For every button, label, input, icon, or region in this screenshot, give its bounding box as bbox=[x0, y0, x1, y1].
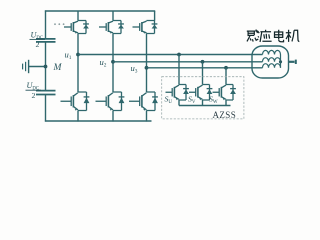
motor winding row 3 bbox=[263, 64, 281, 68]
wire top DC bus bbox=[45, 10, 155, 12]
svg-text:SW: SW bbox=[209, 94, 218, 105]
transistor Q6 (bottom leg C IGBT+diode) bbox=[129, 92, 158, 111]
wire leg C lower stub bbox=[146, 111, 148, 122]
wire phase leg B vertical bbox=[112, 34, 114, 93]
transistor Q5 (top leg C IGBT+diode) bbox=[133, 21, 158, 34]
svg-text:u2: u2 bbox=[100, 57, 107, 69]
label induction motor (Chinese) bbox=[247, 30, 259, 42]
capacitor C2 (lower DC-link) bbox=[36, 90, 56, 92]
capacitor C1 (upper DC-link) bbox=[36, 38, 56, 40]
svg-text:u1: u1 bbox=[65, 50, 72, 62]
wire phase leg A vertical bbox=[77, 34, 79, 93]
motor star point node bbox=[279, 60, 282, 63]
motor star point wire bbox=[280, 55, 282, 68]
ellipsis dots (top left) bbox=[54, 23, 56, 25]
node AZSS tap 2 bbox=[201, 60, 205, 64]
motor winding row 2 bbox=[263, 58, 281, 62]
wire bottom DC bus bbox=[45, 120, 152, 122]
AZSS dashed box bbox=[162, 77, 244, 119]
svg-text:2: 2 bbox=[32, 91, 36, 100]
wire SV bottom stub bbox=[202, 100, 204, 106]
wire top bus drop to Q1 bbox=[77, 11, 79, 21]
svg-text:SU: SU bbox=[165, 94, 173, 105]
wire phase line 2 bbox=[113, 61, 263, 63]
node u2 junction bbox=[111, 60, 115, 64]
motor outline bbox=[252, 46, 289, 78]
wire AZSS drop 3 bbox=[225, 68, 227, 85]
svg-text:SV: SV bbox=[188, 94, 196, 105]
svg-text:2: 2 bbox=[36, 40, 40, 49]
node u3 junction bbox=[145, 66, 149, 70]
wire phase line 1 bbox=[78, 54, 263, 56]
node AZSS tap 1 bbox=[177, 53, 181, 57]
transistor SW (AZSS switch W) bbox=[213, 85, 236, 101]
transistor Q2 (bottom leg A IGBT+diode) bbox=[61, 92, 90, 111]
svg-text:u3: u3 bbox=[131, 63, 138, 75]
transistor SU (AZSS switch U) bbox=[166, 85, 189, 101]
transistor Q4 (bottom leg B IGBT+diode) bbox=[96, 92, 125, 111]
wire top bus drop to Q3 bbox=[112, 11, 114, 21]
transistor Q3 (top leg B IGBT+diode) bbox=[99, 21, 124, 34]
node u1 junction bbox=[76, 53, 80, 57]
transistor Q1 (top leg A IGBT+diode) bbox=[64, 21, 89, 34]
wire leg A lower stub bbox=[77, 111, 79, 122]
motor shaft bbox=[289, 61, 295, 63]
transistor SV (AZSS switch V) bbox=[189, 85, 212, 101]
node AZSS tap 3 bbox=[224, 66, 228, 70]
svg-text:M: M bbox=[53, 63, 63, 73]
node M junction bbox=[44, 65, 48, 69]
wire left DC rail lower bbox=[45, 95, 47, 122]
battery (DC source) bbox=[22, 64, 24, 70]
wire AZSS common rail bbox=[179, 105, 231, 107]
wire left DC rail upper bbox=[45, 10, 47, 38]
wire SU bottom stub bbox=[178, 100, 180, 106]
wire left DC rail middle bbox=[45, 42, 47, 90]
svg-text:AZSS: AZSS bbox=[213, 110, 237, 120]
wire AZSS drop 1 bbox=[178, 55, 180, 85]
wire phase leg C vertical bbox=[146, 34, 148, 93]
motor winding row 1 bbox=[263, 50, 281, 54]
wire phase line 3 bbox=[147, 67, 263, 69]
wire SW bottom stub bbox=[225, 100, 227, 106]
wire leg B lower stub bbox=[112, 111, 114, 122]
wire top bus drop to Q5 diode bbox=[154, 11, 156, 21]
wire battery to midpoint M bbox=[29, 66, 46, 68]
wire AZSS drop 2 bbox=[202, 62, 204, 85]
